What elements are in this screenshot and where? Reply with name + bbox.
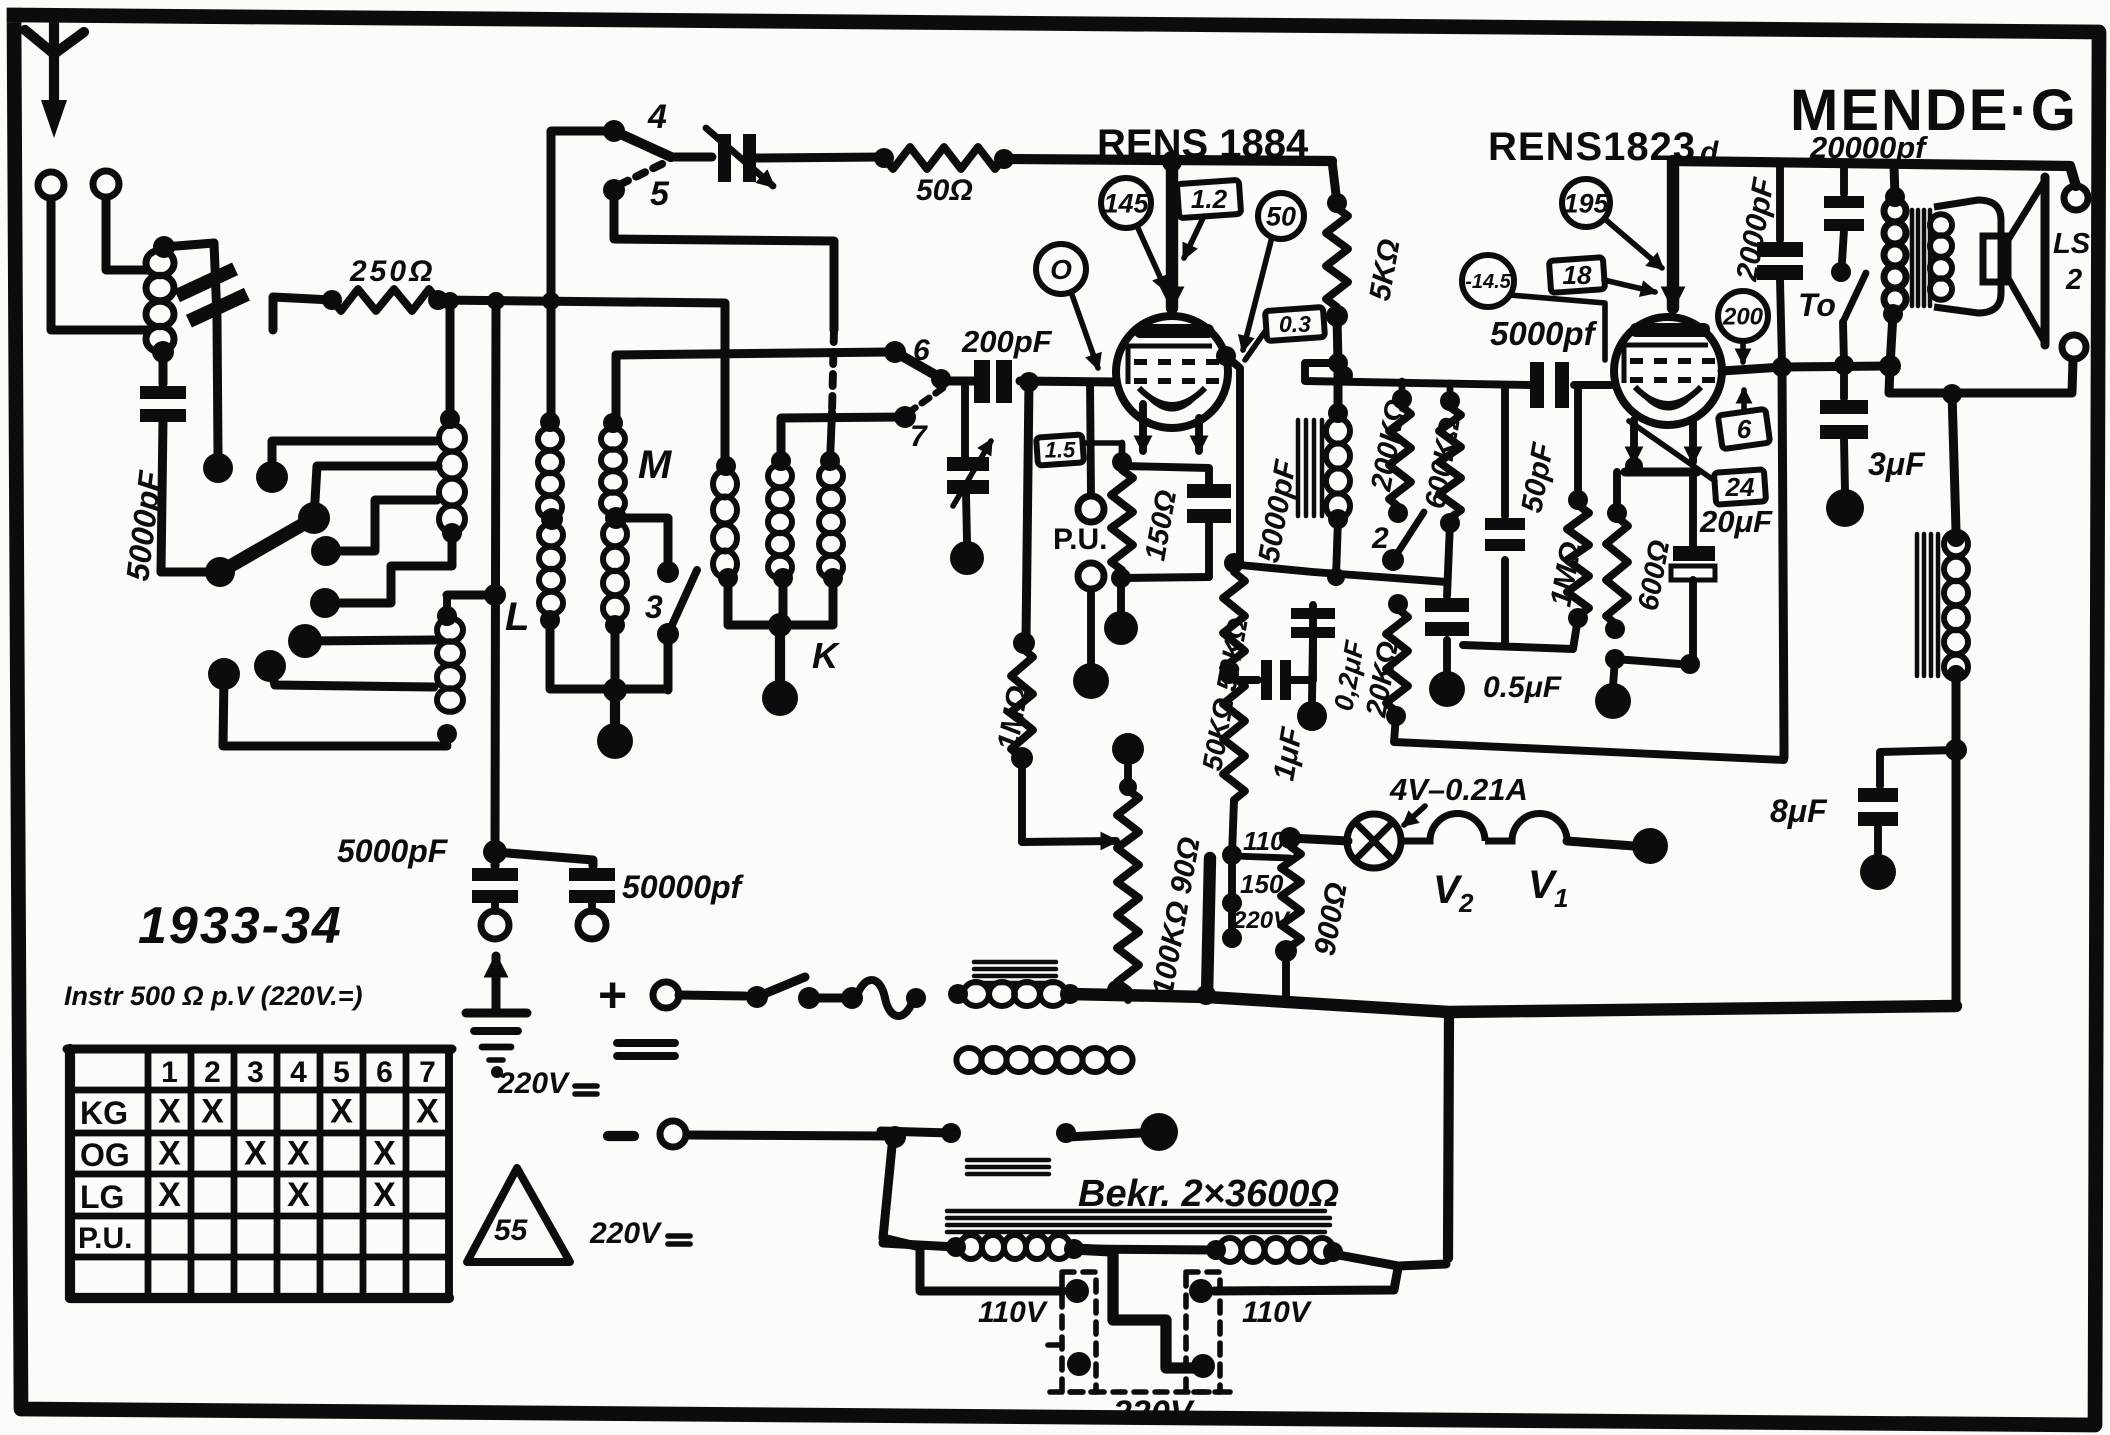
center tap xyxy=(1074,1249,1196,1368)
annotation 1.5 xyxy=(1036,434,1084,465)
svg-text:X: X xyxy=(373,1176,396,1214)
wire cathode rail xyxy=(1625,468,1697,477)
equals mark xyxy=(617,1039,675,1047)
resistor 900Ω xyxy=(1281,847,1301,946)
svg-text:0.5μF: 0.5μF xyxy=(1483,671,1562,704)
node K gnd xyxy=(775,625,785,682)
plug box left xyxy=(1062,1272,1096,1392)
svg-text:X: X xyxy=(416,1093,439,1131)
T2 secondary xyxy=(1930,214,1952,236)
annotation 6 xyxy=(1718,409,1770,449)
fuse xyxy=(809,994,852,1003)
annotation 1.2 xyxy=(1177,180,1241,218)
svg-text:-14.5: -14.5 xyxy=(1465,271,1511,293)
speaker LS xyxy=(1983,236,2008,282)
svg-text:24: 24 xyxy=(1725,472,1755,502)
svg-text:200pF: 200pF xyxy=(961,324,1053,359)
mains choke xyxy=(963,982,989,1006)
resistor 1MΩ grid xyxy=(1011,648,1033,758)
terminal A1 xyxy=(38,172,64,198)
svg-text:110: 110 xyxy=(1243,826,1285,856)
svg-text:100KΩ 90Ω: 100KΩ 90Ω xyxy=(1146,835,1206,999)
resistor 5KΩ xyxy=(1332,161,1337,203)
plug pin 4 xyxy=(1191,1354,1215,1378)
svg-text:150Ω: 150Ω xyxy=(1139,487,1183,563)
wire B+ feed xyxy=(1305,363,1529,385)
terminal LS1 xyxy=(2064,186,2088,210)
svg-text:1μF: 1μF xyxy=(1267,725,1309,784)
plug dashes xyxy=(1048,1342,1062,1348)
svg-text:5000pF: 5000pF xyxy=(337,833,449,869)
svg-text:Bekr. 2×3600Ω: Bekr. 2×3600Ω xyxy=(1078,1173,1339,1215)
wire xyxy=(1952,750,1961,1006)
resistor 200KΩ xyxy=(1392,389,1412,409)
svg-text:5000pf: 5000pf xyxy=(1490,315,1598,352)
svg-text:1MΩ: 1MΩ xyxy=(991,683,1035,753)
svg-text:6: 6 xyxy=(1737,414,1752,444)
svg-text:5KΩ: 5KΩ xyxy=(1363,237,1406,304)
T3 secondary right xyxy=(1219,1238,1242,1262)
svg-text:18: 18 xyxy=(1563,260,1592,290)
screen node xyxy=(1216,346,1236,366)
antenna xyxy=(25,30,84,54)
wire xyxy=(1880,750,1956,786)
terminal G2 xyxy=(578,911,606,939)
svg-text:5: 5 xyxy=(650,175,670,213)
capacitor 200pF xyxy=(946,377,974,386)
choke core xyxy=(1296,420,1301,516)
svg-text:2: 2 xyxy=(1371,522,1389,555)
anode lead 2 xyxy=(1667,161,1679,308)
tube V-RENS1884 xyxy=(1116,316,1228,428)
T2 core xyxy=(1910,210,1915,306)
capacitor 20μF xyxy=(1689,472,1697,546)
wire xyxy=(614,190,834,330)
wire xyxy=(883,1136,1063,1291)
annotation -14.5 xyxy=(1462,255,1514,307)
wire xyxy=(1018,758,1026,842)
svg-text:RENS 1884: RENS 1884 xyxy=(1097,122,1309,166)
svg-text:0.3: 0.3 xyxy=(1279,311,1311,337)
wire xyxy=(1615,659,1693,665)
resistor 150Ω xyxy=(1111,470,1133,570)
wire xyxy=(832,330,834,412)
wire xyxy=(1952,393,1956,530)
resistor 50Ω xyxy=(884,147,1004,169)
node xyxy=(1613,659,1615,686)
annotation 145 xyxy=(1101,178,1151,228)
triangle 55 xyxy=(467,1168,570,1262)
filament V1 xyxy=(1485,814,1567,841)
wire screen rail xyxy=(1240,565,1447,582)
ground cap wire xyxy=(491,854,500,866)
resistor 600Ω xyxy=(1613,472,1621,513)
wire xyxy=(217,318,218,455)
resistor 600KΩ xyxy=(1440,391,1460,411)
wire xyxy=(1782,367,1784,758)
resistor 50KΩ 50KΩ xyxy=(1223,572,1245,800)
capacitor 20000pF xyxy=(1840,166,1848,194)
capacitor 2000pF xyxy=(1776,166,1784,240)
svg-text:X: X xyxy=(158,1176,181,1214)
svg-text:8μF: 8μF xyxy=(1770,793,1828,829)
svg-text:220V: 220V xyxy=(589,1217,663,1250)
svg-text:50pF: 50pF xyxy=(1515,440,1560,515)
svg-text:X: X xyxy=(373,1135,396,1173)
terminal LS2 xyxy=(2062,335,2086,359)
switch 3 xyxy=(616,518,668,566)
capacitor 50000pF mains xyxy=(569,868,615,881)
svg-text:X: X xyxy=(287,1135,310,1173)
svg-text:150: 150 xyxy=(1240,869,1284,899)
svg-text:20μF: 20μF xyxy=(1699,504,1773,539)
wire xyxy=(781,417,905,461)
plug pin 2 xyxy=(1067,1352,1091,1376)
annotation O xyxy=(1036,244,1086,294)
node L join xyxy=(484,584,506,606)
svg-text:OG: OG xyxy=(80,1137,130,1173)
svg-text:110V: 110V xyxy=(1242,1296,1313,1329)
switch 7 xyxy=(894,406,916,428)
svg-text:X: X xyxy=(158,1093,181,1131)
wire heavy xyxy=(1207,858,1210,996)
resistor 1MΩ g2 xyxy=(1574,385,1582,500)
svg-text:50KΩ 50KΩ: 50KΩ 50KΩ xyxy=(1196,616,1253,773)
choke core3 xyxy=(974,960,1056,965)
svg-text:X: X xyxy=(287,1176,310,1214)
svg-text:50: 50 xyxy=(1266,201,1296,231)
svg-text:3μF: 3μF xyxy=(1868,446,1926,482)
svg-text:LG: LG xyxy=(80,1179,124,1215)
wire xyxy=(1068,1133,1140,1137)
contact 1a xyxy=(203,453,233,483)
svg-text:O: O xyxy=(1050,254,1072,285)
lamp 4V-0.21A xyxy=(1290,838,1348,841)
svg-text:7: 7 xyxy=(419,1056,436,1089)
wire xyxy=(1333,1254,1446,1266)
terminal G1 xyxy=(481,911,509,939)
coil K3 xyxy=(819,465,843,488)
node xyxy=(1328,353,1348,373)
svg-text:RENS1823: RENS1823 xyxy=(1488,125,1696,169)
capacitor 8μF xyxy=(1858,788,1898,802)
svg-text:50Ω: 50Ω xyxy=(916,174,973,207)
wire xyxy=(438,300,725,466)
svg-text:4V–0.21A: 4V–0.21A xyxy=(1389,772,1528,807)
svg-text:1.5: 1.5 xyxy=(1045,438,1076,463)
wire anode rail2 xyxy=(1722,366,1890,371)
terminal PU2 xyxy=(1078,563,1104,589)
annotation 24 xyxy=(1714,469,1766,504)
wire xyxy=(1026,381,1029,640)
svg-text:Instr 500 Ω p.V (220V.=): Instr 500 Ω p.V (220V.=) xyxy=(64,981,362,1011)
coil M1 xyxy=(538,428,562,450)
svg-text:3: 3 xyxy=(645,589,663,625)
capacitor 0.5μF xyxy=(1447,523,1450,596)
terminal PU1 xyxy=(1078,496,1104,522)
wire xyxy=(687,1135,895,1136)
choke core2 xyxy=(1915,534,1920,676)
wire xyxy=(314,466,438,518)
capacitor 1μF xyxy=(1234,676,1258,684)
wire bus top right xyxy=(1673,161,2076,186)
wire xyxy=(1448,1012,1449,1258)
svg-text:P.U.: P.U. xyxy=(1053,523,1107,556)
wire xyxy=(1312,572,1314,605)
svg-text:195: 195 xyxy=(1563,188,1609,218)
svg-text:7: 7 xyxy=(910,420,928,453)
capacitor 5000pF mains xyxy=(472,868,518,881)
annotation 200 xyxy=(1718,291,1768,341)
output transformer T2 primary xyxy=(1894,166,1895,197)
svg-text:KG: KG xyxy=(80,1095,128,1131)
svg-text:1: 1 xyxy=(1554,883,1568,913)
coil L upper xyxy=(439,425,465,452)
contact 5a xyxy=(288,624,322,658)
svg-text:4: 4 xyxy=(290,1056,307,1089)
svg-text:1.2: 1.2 xyxy=(1191,184,1228,214)
switch To xyxy=(1843,273,1866,322)
switch S1 lever xyxy=(161,568,220,577)
wire xyxy=(51,199,148,330)
wire M bottom xyxy=(550,620,668,689)
svg-text:250Ω: 250Ω xyxy=(349,255,435,288)
wire bus main xyxy=(1070,994,1956,1012)
svg-text:900Ω: 900Ω xyxy=(1308,880,1353,958)
wire xyxy=(1567,841,1634,846)
plug pin 1 xyxy=(1065,1279,1089,1303)
svg-text:1: 1 xyxy=(161,1056,178,1089)
switch 2 xyxy=(1382,549,1404,571)
filament V2 xyxy=(1401,814,1485,841)
svg-text:145: 145 xyxy=(1103,188,1149,218)
svg-text:X: X xyxy=(244,1135,267,1173)
contact 3a xyxy=(311,536,341,566)
node xyxy=(1327,568,1345,586)
minus terminal xyxy=(608,1131,634,1141)
wire xyxy=(1121,577,1209,578)
svg-text:To: To xyxy=(1798,287,1836,323)
svg-text:LS: LS xyxy=(2053,228,2091,260)
capacitor 5000pf coupling xyxy=(1530,362,1544,408)
anode lead xyxy=(1166,162,1178,308)
svg-text:2: 2 xyxy=(2065,264,2082,296)
svg-text:M: M xyxy=(638,443,673,487)
contact 4a xyxy=(310,588,340,618)
tube V-RENS1823d xyxy=(1614,317,1722,425)
choke core4 xyxy=(967,1158,1049,1163)
switch 4 xyxy=(603,120,625,142)
tap 220V xyxy=(1222,928,1242,948)
wire xyxy=(612,355,621,423)
capacitor 5000pF cathode xyxy=(1122,466,1209,484)
svg-text:3: 3 xyxy=(247,1056,264,1089)
svg-text:P.U.: P.U. xyxy=(78,1222,132,1255)
wire K bottom xyxy=(728,578,833,625)
svg-text:6: 6 xyxy=(913,334,930,367)
svg-text:5000pF: 5000pF xyxy=(1252,457,1303,565)
switch table grid xyxy=(70,1046,449,1053)
O pointer xyxy=(1071,292,1098,368)
svg-text:5: 5 xyxy=(333,1056,350,1089)
switch 5 xyxy=(603,179,625,201)
annotation 18 xyxy=(1549,257,1605,293)
svg-text:X: X xyxy=(201,1093,224,1131)
coil K2 xyxy=(768,465,792,488)
contact 6a xyxy=(254,650,286,682)
svg-text:600KΩ: 600KΩ xyxy=(1419,415,1467,511)
antenna coil T1 xyxy=(146,250,174,276)
svg-text:55: 55 xyxy=(494,1214,529,1247)
svg-text:2: 2 xyxy=(204,1056,221,1089)
svg-text:+: + xyxy=(598,967,627,1023)
svg-text:50000pf: 50000pf xyxy=(622,869,745,905)
choke AF xyxy=(1326,418,1350,443)
svg-text:K: K xyxy=(812,635,841,676)
transformer core xyxy=(947,1209,1325,1214)
coupler core xyxy=(174,262,250,327)
wire xyxy=(1087,590,1095,664)
svg-text:L: L xyxy=(505,595,529,639)
switch 6 xyxy=(616,352,895,355)
cathode arrows xyxy=(1139,404,1147,451)
coil K1 xyxy=(713,471,737,498)
mains switch xyxy=(679,995,745,996)
contact 7a xyxy=(208,658,240,690)
svg-text:X: X xyxy=(158,1135,181,1173)
tap 150 xyxy=(1222,893,1242,913)
svg-text:2: 2 xyxy=(1458,888,1474,918)
svg-text:220V: 220V xyxy=(497,1067,571,1100)
node M gnd xyxy=(610,690,620,726)
capacitor 0,2μF xyxy=(1309,605,1317,680)
choke speaker xyxy=(1944,532,1968,556)
filament choke xyxy=(956,1048,981,1072)
T3 secondary left xyxy=(960,1235,982,1259)
wire xyxy=(551,131,614,422)
svg-text:1933-34: 1933-34 xyxy=(138,897,343,955)
svg-text:4: 4 xyxy=(647,98,667,136)
plug pin 3 xyxy=(1189,1279,1213,1303)
wire xyxy=(1463,645,1573,649)
coil M2 xyxy=(601,428,625,450)
svg-text:X: X xyxy=(330,1093,353,1131)
wire xyxy=(495,301,496,854)
capacitor 50pF xyxy=(1501,385,1509,516)
capacitor 3μF xyxy=(1840,365,1848,398)
wire xyxy=(1090,382,1091,495)
resistor 100KΩ 90Ω xyxy=(1117,790,1139,990)
trimmer cap xyxy=(961,381,969,457)
capacitor C-var xyxy=(671,153,712,162)
plug box right xyxy=(1186,1272,1220,1392)
resistor 20KΩ xyxy=(1388,594,1408,614)
wire xyxy=(106,198,147,270)
svg-text:200: 200 xyxy=(1722,303,1764,330)
annotation 50 xyxy=(1258,193,1304,239)
capacitor 5000pF xyxy=(159,352,168,384)
cathode arrows 2 xyxy=(1630,420,1638,462)
ground symbol xyxy=(492,956,501,1012)
wire xyxy=(1889,360,2073,393)
tap 110 xyxy=(1222,845,1242,865)
wire bus top xyxy=(1004,159,1332,161)
svg-text:MENDE·G: MENDE·G xyxy=(1790,78,2078,143)
resistor 250Ω xyxy=(332,289,438,311)
svg-text:6: 6 xyxy=(376,1056,393,1089)
contact 2a xyxy=(256,461,288,493)
svg-text:110V: 110V xyxy=(978,1296,1049,1329)
svg-text:220V: 220V xyxy=(1112,1394,1196,1432)
coil L lower xyxy=(437,618,463,642)
terminal A2 xyxy=(93,171,119,197)
annotation 195 xyxy=(1562,179,1610,227)
annotation 0.3 xyxy=(1265,307,1325,341)
